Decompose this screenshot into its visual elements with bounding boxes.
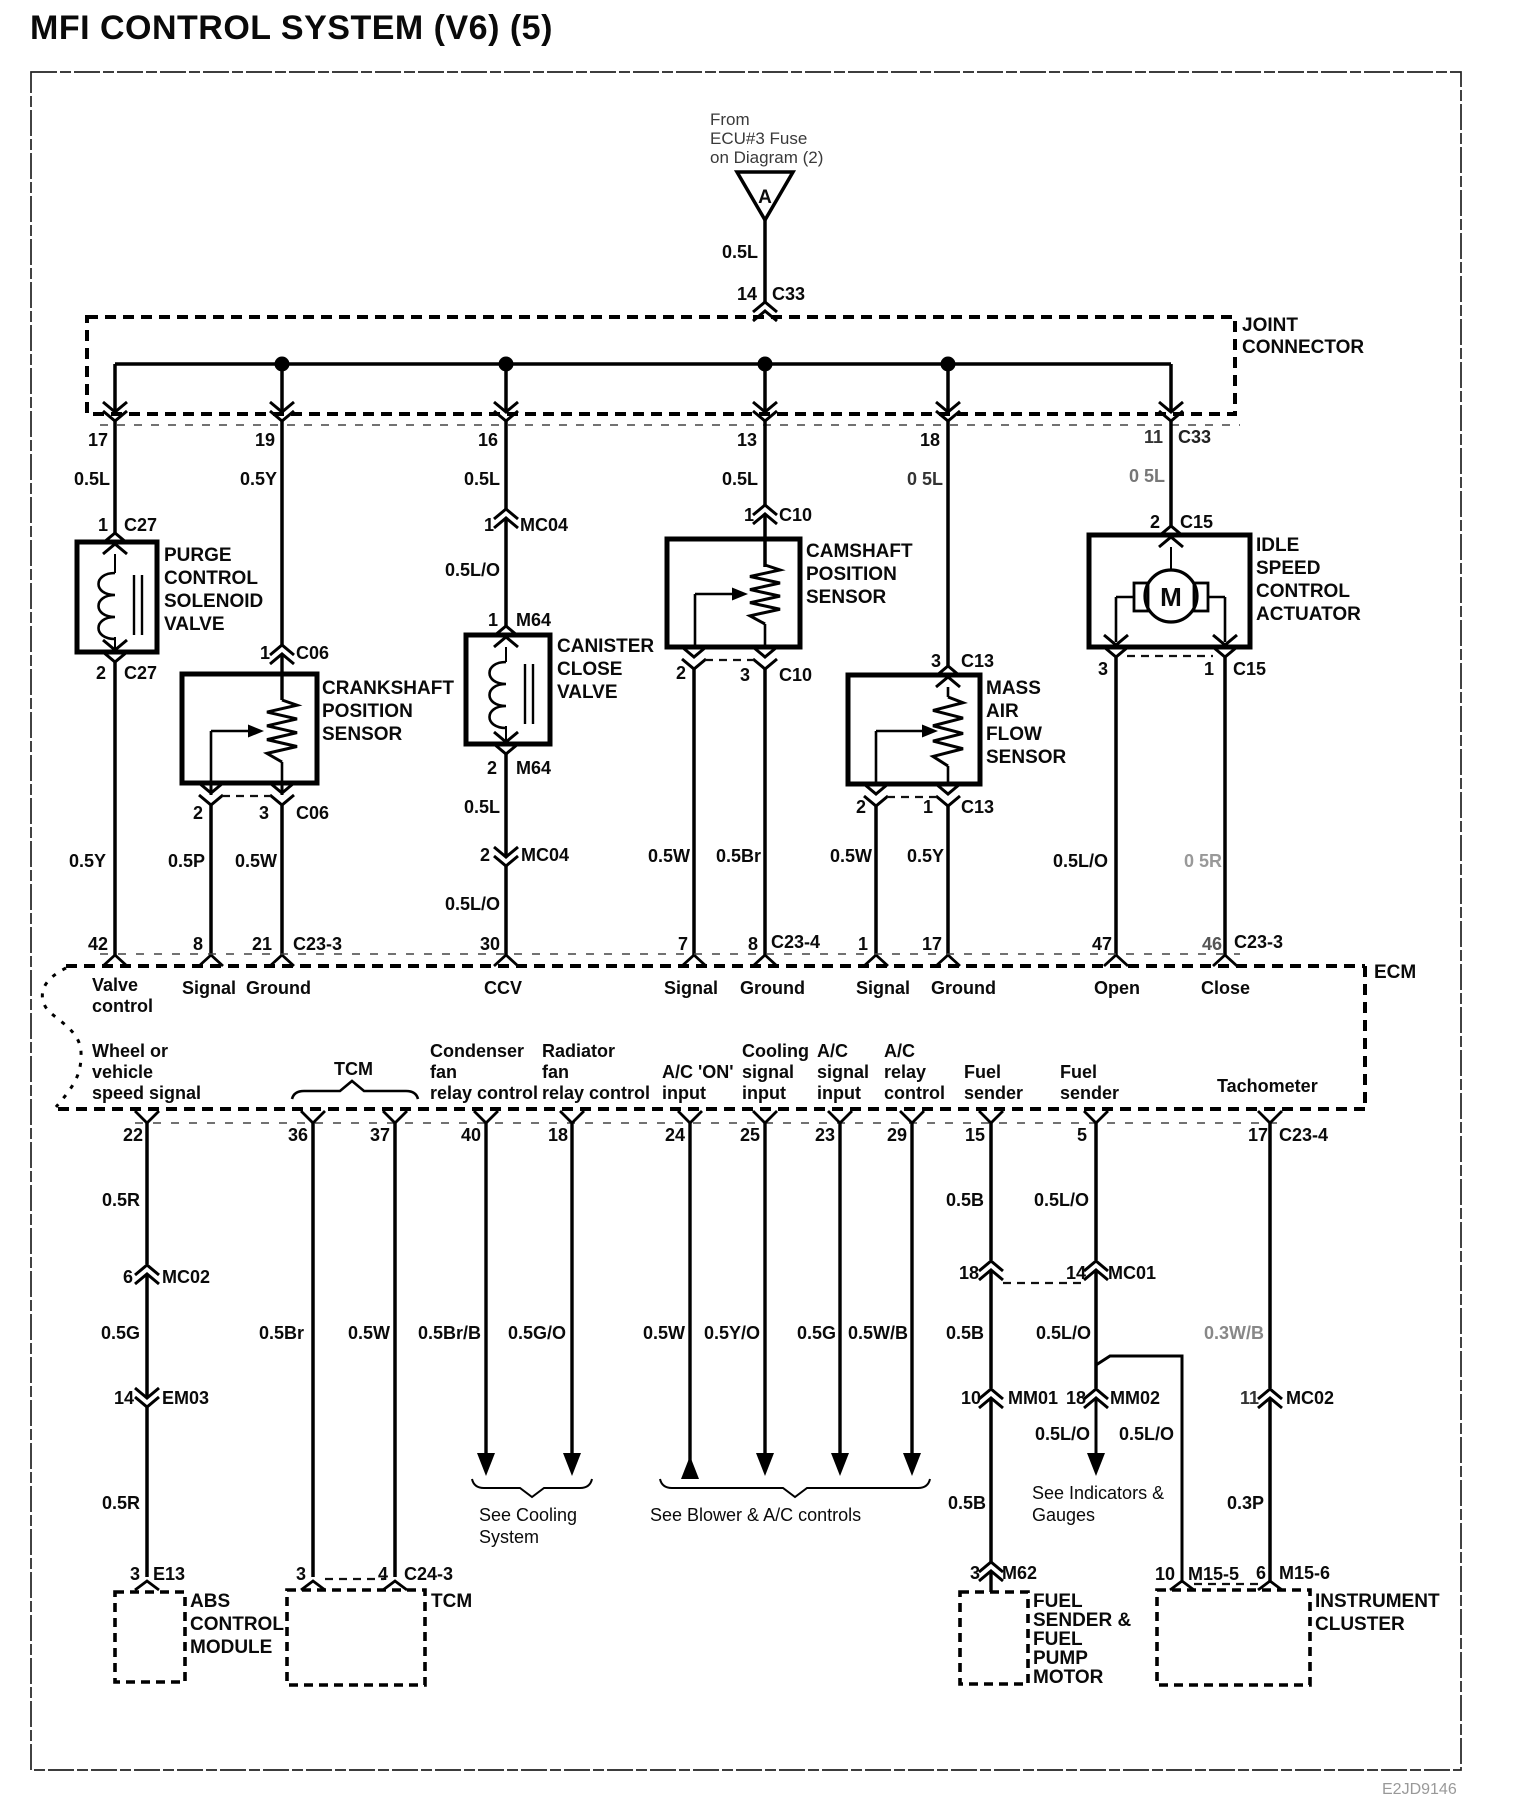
camshaft sensor wiper arrow [694,594,697,647]
svg-text:25: 25 [740,1125,760,1145]
wire 24 AC ON input [688,1123,691,1477]
connector 14 EM03 symbol [135,1388,159,1398]
svg-text:0.5L: 0.5L [74,469,110,489]
svg-text:Signal: Signal [182,978,236,998]
svg-text:C15: C15 [1233,659,1266,679]
svg-text:10: 10 [961,1388,981,1408]
svg-text:FUEL: FUEL [1033,1629,1083,1650]
wire 15 upper [989,1123,993,1260]
svg-text:21: 21 [252,934,272,954]
connector 14 MC01 symbol [1084,1261,1108,1271]
svg-text:0.5L/O: 0.5L/O [1036,1323,1091,1343]
svg-text:8: 8 [193,934,203,954]
svg-text:19: 19 [255,430,275,450]
svg-text:MC02: MC02 [1286,1388,1334,1408]
svg-text:ACTUATOR: ACTUATOR [1256,604,1361,625]
svg-text:CANISTER: CANISTER [557,636,654,657]
svg-text:E2JD9146: E2JD9146 [1382,1781,1457,1798]
svg-text:14: 14 [737,284,757,304]
wire 15 lower [989,1398,993,1562]
wire 5 mid [1094,1270,1098,1388]
svg-text:C13: C13 [961,651,994,671]
svg-text:3: 3 [740,665,750,685]
connector 14 C33 symbol [753,302,777,312]
svg-text:A/C: A/C [817,1041,848,1061]
ECM bottom pin 37 exit arrow [383,1111,407,1123]
svg-text:Signal: Signal [856,978,910,998]
TCM pin 4 entry arrow [383,1581,407,1590]
svg-text:0.5L: 0.5L [464,797,500,817]
svg-text:CONTROL: CONTROL [164,568,258,589]
svg-text:C27: C27 [124,663,157,683]
camshaft pin 2 symbol [682,647,706,657]
svg-text:42: 42 [88,934,108,954]
svg-text:0.5L: 0.5L [722,469,758,489]
svg-text:14: 14 [114,1388,134,1408]
ECM bottom pin 15 exit arrow [979,1111,1003,1123]
svg-text:C23-4: C23-4 [771,932,820,952]
svg-text:18: 18 [548,1125,568,1145]
crankshaft sensor resistor lead [281,762,284,783]
svg-text:36: 36 [288,1125,308,1145]
wire 5 upper [1094,1123,1098,1260]
svg-text:IDLE: IDLE [1256,535,1299,556]
wire 21 crank ground to ECM [280,805,284,955]
connector 10 MM01 symbol [979,1389,1003,1399]
wire 11 to ISC actuator [1169,421,1173,526]
joint connector drop wire at x=506 [504,364,508,411]
svg-text:0.5B: 0.5B [946,1190,984,1210]
svg-text:0.5B: 0.5B [948,1493,986,1513]
joint connector exit arrow at x=765 [753,402,777,412]
svg-text:CLOSE: CLOSE [557,659,622,680]
crankshaft pins dashed connector line [222,795,271,797]
svg-text:0.5Br: 0.5Br [259,1323,304,1343]
wire into crankshaft sensor [280,654,283,700]
ECM bottom pin 40 exit arrow [474,1111,498,1123]
svg-text:0.5W: 0.5W [235,851,277,871]
connector 6 MC02 symbol [135,1265,159,1275]
svg-text:ABS: ABS [190,1591,230,1612]
svg-text:6: 6 [1256,1563,1266,1583]
svg-text:AIR: AIR [986,701,1019,722]
wire 23 AC signal [838,1123,841,1458]
svg-text:0.5L/O: 0.5L/O [1035,1424,1090,1444]
ECM bottom pin 25 exit arrow [753,1111,777,1123]
ISC open-side wire [1116,596,1134,599]
wire 7 cam signal to ECM [692,669,696,955]
svg-text:PUMP: PUMP [1033,1648,1088,1669]
svg-text:0.5W: 0.5W [648,846,690,866]
svg-text:signal: signal [817,1062,869,1082]
ABS control module dashed box [115,1592,185,1682]
ECM bottom pin 24 exit arrow [678,1111,702,1123]
purge control solenoid valve box [77,542,157,652]
wire 19 to crankshaft sensor [280,421,284,645]
joint connector exit arrow at x=282 [270,402,294,412]
wire 13 to camshaft sensor [763,421,767,505]
svg-text:C06: C06 [296,803,329,823]
joint connector exit arrow at x=948 [936,402,960,412]
wire 47 open to ECM [1114,656,1118,955]
wire into camshaft sensor [763,514,767,567]
svg-text:C33: C33 [772,284,805,304]
wire 22 lower segment [145,1407,149,1577]
camshaft pin 3 symbol [753,647,777,657]
svg-text:SENSOR: SENSOR [986,747,1067,768]
svg-text:EM03: EM03 [162,1388,209,1408]
ECM pin 42 entry arrow [103,955,127,966]
svg-text:0.3P: 0.3P [1227,1493,1264,1513]
wire 22 mid segment [145,1274,149,1398]
svg-text:input: input [662,1083,706,1103]
svg-text:relay control: relay control [542,1083,650,1103]
fuel sender dashed box [960,1592,1028,1684]
joint connector drop wire at x=115 [113,364,117,411]
camshaft sensor resistor [750,565,780,624]
svg-text:SENDER &: SENDER & [1033,1610,1131,1631]
svg-text:signal: signal [742,1062,794,1082]
wire 36 to TCM [311,1123,315,1577]
ISC motor feed wire [1170,547,1172,571]
svg-text:ECM: ECM [1374,962,1416,983]
svg-text:M15-5: M15-5 [1188,1564,1239,1584]
svg-text:1: 1 [488,610,498,630]
svg-text:CONNECTOR: CONNECTOR [1242,337,1364,358]
svg-text:11: 11 [1240,1388,1259,1408]
svg-text:0.5L/O: 0.5L/O [445,894,500,914]
svg-text:From: From [710,110,750,129]
svg-text:2: 2 [480,845,490,865]
svg-text:SENSOR: SENSOR [322,724,403,745]
svg-text:Cooling: Cooling [742,1041,809,1061]
wire 30 to ECM [504,866,508,955]
svg-text:M64: M64 [516,758,551,778]
svg-text:Ground: Ground [246,978,311,998]
joint connector drop wire at x=1171 [1169,364,1173,411]
ECM bottom pin 5 exit arrow [1084,1111,1108,1123]
svg-text:CONTROL: CONTROL [190,1614,284,1635]
svg-text:23: 23 [815,1125,835,1145]
wire MC04 to M64 [504,518,508,626]
connector 11 MC02 symbol [1258,1389,1282,1399]
svg-text:0.5L/O: 0.5L/O [1119,1424,1174,1444]
ECM pin 7 entry arrow [682,955,706,966]
svg-text:C10: C10 [779,505,812,525]
svg-text:CRANKSHAFT: CRANKSHAFT [322,678,454,699]
svg-text:Ground: Ground [931,978,996,998]
svg-text:0.5Y: 0.5Y [240,469,277,489]
svg-text:5: 5 [1077,1125,1087,1145]
svg-text:22: 22 [123,1125,143,1145]
camshaft position sensor box [667,539,800,647]
svg-text:speed signal: speed signal [92,1083,201,1103]
svg-text:40: 40 [461,1125,481,1145]
svg-text:MC04: MC04 [520,515,568,535]
svg-text:FLOW: FLOW [986,724,1042,745]
ECM bottom pin 17 exit arrow [1258,1111,1282,1123]
svg-text:17: 17 [88,430,108,450]
svg-text:47: 47 [1092,934,1112,954]
svg-text:VALVE: VALVE [557,682,618,703]
junction dot node B2 [499,357,514,372]
connector 1 C06 symbol [270,645,294,655]
svg-text:Gauges: Gauges [1032,1505,1095,1525]
svg-text:Close: Close [1201,978,1250,998]
svg-text:0.5B: 0.5B [946,1323,984,1343]
svg-text:4: 4 [378,1564,388,1584]
TCM brace [292,1081,418,1099]
svg-text:0.5G: 0.5G [101,1323,140,1343]
svg-text:M: M [1160,582,1182,612]
joint connector drop wire at x=282 [280,364,284,411]
svg-text:MFI CONTROL SYSTEM (V6) (5): MFI CONTROL SYSTEM (V6) (5) [30,9,553,47]
svg-text:0.5W: 0.5W [643,1323,685,1343]
svg-text:0.5R: 0.5R [102,1190,140,1210]
ECM pin 46 entry arrow [1213,955,1237,966]
wire 29 AC relay [910,1123,913,1458]
svg-text:System: System [479,1527,539,1547]
svg-text:2: 2 [856,797,866,817]
svg-text:0.5R: 0.5R [102,1493,140,1513]
ISC close-side wire [1208,596,1225,599]
junction dot node B4 [941,357,956,372]
svg-text:11: 11 [1144,427,1163,447]
motor M1 circle [1145,570,1197,622]
svg-text:Fuel: Fuel [1060,1062,1097,1082]
wire 17 to purge valve [113,421,117,533]
svg-text:C23-3: C23-3 [1234,932,1283,952]
svg-text:vehicle: vehicle [92,1062,153,1082]
svg-text:C33: C33 [1178,427,1211,447]
svg-text:16: 16 [478,430,498,450]
svg-text:1: 1 [98,515,108,535]
ECM bottom connector face thin dashed line [135,1122,1285,1124]
svg-text:INSTRUMENT: INSTRUMENT [1315,1591,1440,1612]
svg-text:relay control: relay control [430,1083,538,1103]
svg-text:A/C: A/C [884,1041,915,1061]
ECM bottom pin 36 exit arrow [301,1111,325,1123]
svg-text:SPEED: SPEED [1256,558,1320,579]
ISC pin 1 symbol [1213,635,1237,645]
svg-text:TCM: TCM [431,1591,472,1612]
svg-text:24: 24 [665,1125,685,1145]
svg-text:sender: sender [964,1083,1023,1103]
svg-text:29: 29 [887,1125,907,1145]
svg-text:Valve: Valve [92,975,138,995]
svg-text:input: input [817,1083,861,1103]
svg-text:A/C 'ON': A/C 'ON' [662,1062,734,1082]
svg-text:MC02: MC02 [162,1267,210,1287]
svg-text:C06: C06 [296,643,329,663]
joint connector face thin dashed line [100,424,1240,426]
crankshaft pin 3 symbol [281,783,284,795]
svg-text:Signal: Signal [664,978,718,998]
svg-text:0.5Br/B: 0.5Br/B [418,1323,481,1343]
wire 5 lower with arrow [1095,1398,1098,1458]
wire from triangle A to joint connector pin 14 [763,220,767,302]
wire 8 crank signal to ECM [209,805,213,955]
svg-text:MC01: MC01 [1108,1263,1156,1283]
svg-text:0.5L: 0.5L [464,469,500,489]
connector pin 3 C13 symbol [936,666,960,676]
svg-text:0.3W/B: 0.3W/B [1204,1323,1264,1343]
svg-text:3: 3 [970,1563,980,1583]
idle speed control actuator box [1089,535,1250,647]
svg-text:3: 3 [296,1564,306,1584]
wire 37 to TCM [393,1123,397,1577]
svg-text:0.5W: 0.5W [348,1323,390,1343]
connector pin 2 C27 symbol [114,637,116,649]
svg-text:MM01: MM01 [1008,1388,1058,1408]
svg-text:ECU#3 Fuse: ECU#3 Fuse [710,129,807,148]
ECM pin 17 entry arrow [936,955,960,966]
svg-text:8: 8 [748,934,758,954]
svg-text:30: 30 [480,934,500,954]
svg-text:1: 1 [744,505,754,525]
TCM pins dashed connector line [325,1578,384,1580]
svg-text:0.5L/O: 0.5L/O [445,560,500,580]
svg-text:Wheel or: Wheel or [92,1041,168,1061]
svg-text:1: 1 [484,515,494,535]
svg-text:2: 2 [193,803,203,823]
connector pin 2 M64 symbol [505,726,507,740]
wire 1 MAF signal to ECM [874,806,878,955]
crankshaft sensor resistor [267,700,297,762]
wire 17 lower [1268,1398,1272,1583]
connector pin 1 C27 symbol [103,533,127,543]
mass air flow sensor box [848,675,980,784]
TCM dashed box [287,1590,425,1685]
ECM dashed box top edge [66,964,1365,968]
MAF pin 2 symbol [864,784,888,794]
svg-text:C24-3: C24-3 [404,1564,453,1584]
svg-text:0.5Y: 0.5Y [907,846,944,866]
svg-text:MM02: MM02 [1110,1388,1160,1408]
svg-text:0.5Br: 0.5Br [716,846,761,866]
svg-text:MODULE: MODULE [190,1637,272,1658]
svg-text:PURGE: PURGE [164,545,232,566]
svg-text:fan: fan [542,1062,569,1082]
svg-text:C23-4: C23-4 [1279,1125,1328,1145]
svg-text:E13: E13 [153,1564,185,1584]
ECM pin 21 entry arrow [270,955,294,966]
svg-text:M64: M64 [516,610,551,630]
svg-text:CCV: CCV [484,978,522,998]
svg-text:18: 18 [959,1263,979,1283]
svg-text:37: 37 [370,1125,390,1145]
wire 15 mid [989,1270,993,1388]
MAF sensor resistor lead [947,766,950,784]
instrument pin 6 entry arrow [1258,1581,1282,1590]
svg-text:18: 18 [1066,1388,1086,1408]
ECM bottom pin 18 exit arrow [560,1111,584,1123]
svg-text:relay: relay [884,1062,926,1082]
svg-text:POSITION: POSITION [806,564,897,585]
svg-text:0.5G: 0.5G [797,1323,836,1343]
svg-text:Tachometer: Tachometer [1217,1076,1318,1096]
wire 8 cam ground to ECM [763,669,767,955]
ECM pin 8 entry arrow [199,955,223,966]
connector 1 MC04 symbol [494,509,518,519]
svg-text:6: 6 [123,1267,133,1287]
svg-text:0.5L/O: 0.5L/O [1034,1190,1089,1210]
MAF pin 1 symbol [936,784,960,794]
ECM dashed box bottom edge [55,1107,1365,1111]
wire 18 radiator fan [570,1123,573,1458]
svg-text:SOLENOID: SOLENOID [164,591,263,612]
svg-text:1: 1 [260,643,270,663]
svg-text:CLUSTER: CLUSTER [1315,1614,1405,1635]
wire 40 condenser fan [484,1123,487,1458]
joint connector drop wire at x=948 [946,364,950,411]
svg-text:Fuel: Fuel [964,1062,1001,1082]
svg-text:sender: sender [1060,1083,1119,1103]
svg-text:7: 7 [678,934,688,954]
MAF pins dashed connector line [887,796,937,798]
svg-text:on Diagram (2): on Diagram (2) [710,148,823,167]
svg-text:2: 2 [487,758,497,778]
svg-text:M15-6: M15-6 [1279,1563,1330,1583]
svg-text:3: 3 [931,651,941,671]
power source triangle A [737,172,793,220]
svg-text:1: 1 [923,797,933,817]
svg-text:Open: Open [1094,978,1140,998]
joint connector exit arrow at x=506 [494,402,518,412]
instrument pins dashed connector line [1194,1583,1258,1585]
joint connector exit arrow at x=115 [103,402,127,412]
svg-text:0.5L/O: 0.5L/O [1053,851,1108,871]
bus wire inside joint connector [115,362,1171,365]
svg-text:Radiator: Radiator [542,1041,615,1061]
svg-text:control: control [884,1083,945,1103]
connector 1 C10 symbol [753,505,777,515]
wire 25 cooling signal [763,1123,766,1458]
connector 18 symbol [979,1261,1003,1271]
canister solenoid coil L2 [505,647,507,662]
ECM bottom pin 29 exit arrow [900,1111,924,1123]
svg-text:POSITION: POSITION [322,701,413,722]
blower brace [660,1479,930,1497]
camshaft sensor resistor lead [764,624,767,647]
svg-text:3: 3 [1098,659,1108,679]
wire 42 purge to ECM [113,661,117,955]
svg-text:VALVE: VALVE [164,614,225,635]
svg-text:Ground: Ground [740,978,805,998]
svg-text:15: 15 [965,1125,985,1145]
MAF sensor wiper arrow [875,731,878,784]
svg-text:2: 2 [1150,512,1160,532]
crankshaft position sensor box [182,674,317,783]
motor left brush tab [1134,583,1148,611]
ECM pin 30 entry arrow [494,955,518,966]
ECM pin 47 entry arrow [1104,955,1128,966]
svg-text:3: 3 [130,1564,140,1584]
ECM wavy left edge [42,968,81,1107]
wire 18 to MAF sensor [946,421,950,666]
crankshaft sensor wiper arrow [210,731,213,783]
svg-text:0.5P: 0.5P [168,851,205,871]
svg-text:M62: M62 [1002,1563,1037,1583]
svg-text:0.5L: 0.5L [722,242,758,262]
svg-text:MC04: MC04 [521,845,569,865]
svg-text:10: 10 [1155,1564,1175,1584]
connector 3 M62 symbol [979,1562,1003,1572]
junction dot node B1 [275,357,290,372]
svg-text:0 5R: 0 5R [1184,851,1222,871]
svg-text:3: 3 [259,803,269,823]
svg-text:Condenser: Condenser [430,1041,524,1061]
